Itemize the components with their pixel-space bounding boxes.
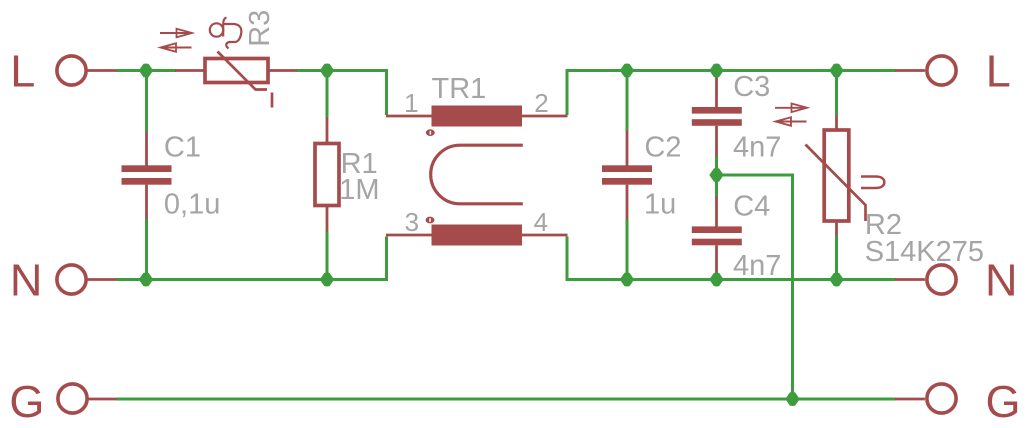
- svg-text:C3: C3: [733, 71, 770, 103]
- resistor R3 arrow pointing left: [162, 47, 192, 49]
- wire R1 top vertical: [326, 71, 329, 118]
- wire R1 bottom vertical: [326, 231, 329, 280]
- transformer TR1 bottom winding: [432, 225, 523, 246]
- wire G rail: [116, 398, 896, 401]
- terminal circle N right: [927, 265, 956, 294]
- capacitor C3 bottom pin: [715, 126, 718, 157]
- svg-text:R3: R3: [244, 10, 276, 47]
- wire C4 bottom to bottom rail: [715, 275, 718, 280]
- capacitor C2 bottom plate: [602, 178, 652, 185]
- junction node top rail / R1: [320, 64, 334, 78]
- wire C3 bottom to midpoint junction: [715, 156, 718, 176]
- junction node top rail / C3: [709, 64, 723, 78]
- transformer TR1 top winding: [432, 106, 523, 127]
- capacitor C3 top pin: [715, 77, 718, 108]
- transformer TR1 pin 2: [522, 115, 568, 118]
- resistor R3 theta glyph: [210, 23, 223, 36]
- varistor R2 diagonal with foot: [806, 145, 866, 222]
- svg-text:4n7: 4n7: [733, 250, 781, 282]
- transformer TR1 pin 4: [522, 234, 568, 237]
- svg-text:0,1u: 0,1u: [164, 189, 220, 221]
- junction node top rail / C2: [620, 64, 634, 78]
- svg-text:L: L: [10, 46, 35, 97]
- terminal circle L left: [57, 56, 86, 85]
- varistor R2 bottom pin: [835, 221, 838, 236]
- junction node bottom rail / C4: [709, 273, 723, 287]
- transformer TR1 bottom polarity dot: [426, 217, 435, 224]
- terminal circle L right: [927, 56, 956, 85]
- junction node G rail: [785, 392, 799, 406]
- varistor R2 arrow pointing right: [775, 107, 805, 109]
- junction node bottom rail / C2: [620, 273, 634, 287]
- transformer TR1 pin 1: [386, 115, 432, 118]
- svg-text:1: 1: [404, 88, 418, 118]
- resistor R3 arrow pointing right: [160, 32, 190, 34]
- wire top rail mid: R3 to corner above TR1 pin1: [297, 71, 387, 116]
- resistor R1 body: [315, 144, 339, 206]
- resistor R3 left pin: [175, 69, 205, 72]
- capacitor C4 bottom plate: [692, 239, 742, 246]
- resistor R1 top pin: [326, 117, 329, 144]
- capacitor C3 top plate: [692, 107, 742, 114]
- transformer TR1 pin 3: [386, 234, 432, 237]
- resistor R3 body: [205, 59, 268, 83]
- svg-text:C4: C4: [733, 191, 770, 223]
- terminal N right pin: [895, 278, 925, 281]
- capacitor C4 top pin: [715, 196, 718, 227]
- wire bottom rail right: corner below TR1 pin4 to right N terminal: [567, 237, 896, 280]
- varistor R2 U glyph (rotated U): [861, 177, 884, 189]
- junction node C3/C4 midpoint: [709, 168, 723, 182]
- wire top rail left: L terminal to R3: [116, 69, 176, 72]
- junction node bottom rail / R1: [320, 273, 334, 287]
- wire R2 bottom vertical: [835, 235, 838, 280]
- svg-text:4: 4: [534, 207, 548, 237]
- svg-text:TR1: TR1: [432, 73, 487, 105]
- svg-text:1u: 1u: [644, 189, 676, 221]
- wire top rail right: corner above TR1 pin2 to right L terminal: [567, 71, 896, 116]
- capacitor C4 top plate: [692, 226, 742, 233]
- varistor R2 arrow pointing left: [777, 121, 807, 123]
- junction node top rail / R2: [829, 64, 843, 78]
- svg-text:N: N: [985, 255, 1018, 306]
- resistor R3 thermistor diagonal with foot: [218, 52, 268, 90]
- svg-text:2: 2: [534, 88, 548, 118]
- svg-text:C2: C2: [644, 132, 681, 164]
- varistor R2 top pin: [835, 115, 838, 130]
- wire bottom rail left: N terminal to corner below TR1 pin3: [116, 237, 387, 280]
- terminal L right pin: [895, 69, 925, 72]
- svg-text:3: 3: [405, 207, 419, 237]
- terminal G left pin: [89, 398, 117, 401]
- capacitor C2 top plate: [602, 165, 652, 172]
- wire C1 top vertical: [145, 71, 148, 133]
- junction node bottom rail / C1: [139, 273, 153, 287]
- terminal circle N left: [57, 265, 86, 294]
- terminal G right pin: [895, 398, 925, 401]
- varistor R2 body: [824, 130, 849, 221]
- svg-text:G: G: [986, 376, 1021, 427]
- wire C2 bottom vertical: [626, 219, 629, 280]
- terminal N left pin: [88, 278, 117, 281]
- capacitor C1 top plate: [122, 165, 172, 172]
- wire C3/C4 midpoint to G rail drop: [715, 175, 793, 399]
- capacitor C1 bottom pin: [145, 185, 148, 219]
- transformer TR1 top polarity dot: [426, 129, 435, 136]
- transformer TR1 core: [431, 145, 523, 204]
- capacitor C1 top pin: [145, 132, 148, 166]
- svg-text:4n7: 4n7: [733, 132, 781, 164]
- terminal L left pin: [88, 69, 117, 72]
- resistor R3 right pin: [268, 69, 297, 72]
- wire R2 top vertical: [835, 71, 838, 116]
- capacitor C2 bottom pin: [626, 185, 629, 220]
- capacitor C4 bottom pin: [715, 245, 718, 275]
- wire C2 top vertical: [626, 71, 629, 132]
- resistor R3 label I: [271, 93, 274, 108]
- capacitor C2 top pin: [626, 131, 629, 166]
- svg-text:G: G: [9, 376, 44, 427]
- svg-text:L: L: [986, 46, 1011, 97]
- wire C1 bottom vertical: [145, 219, 148, 280]
- terminal circle G left: [58, 384, 87, 413]
- terminal circle G right: [927, 384, 956, 413]
- wire C4 top from midpoint junction: [715, 174, 718, 197]
- svg-text:N: N: [10, 255, 43, 306]
- svg-text:C1: C1: [164, 132, 201, 164]
- junction node top rail / C1: [139, 64, 153, 78]
- junction node bottom rail / R2: [829, 273, 843, 287]
- svg-text:1M: 1M: [339, 174, 379, 206]
- capacitor C1 bottom plate: [122, 178, 172, 185]
- svg-text:S14K275: S14K275: [865, 236, 984, 268]
- capacitor C3 bottom plate: [692, 119, 742, 126]
- resistor R1 bottom pin: [326, 206, 329, 232]
